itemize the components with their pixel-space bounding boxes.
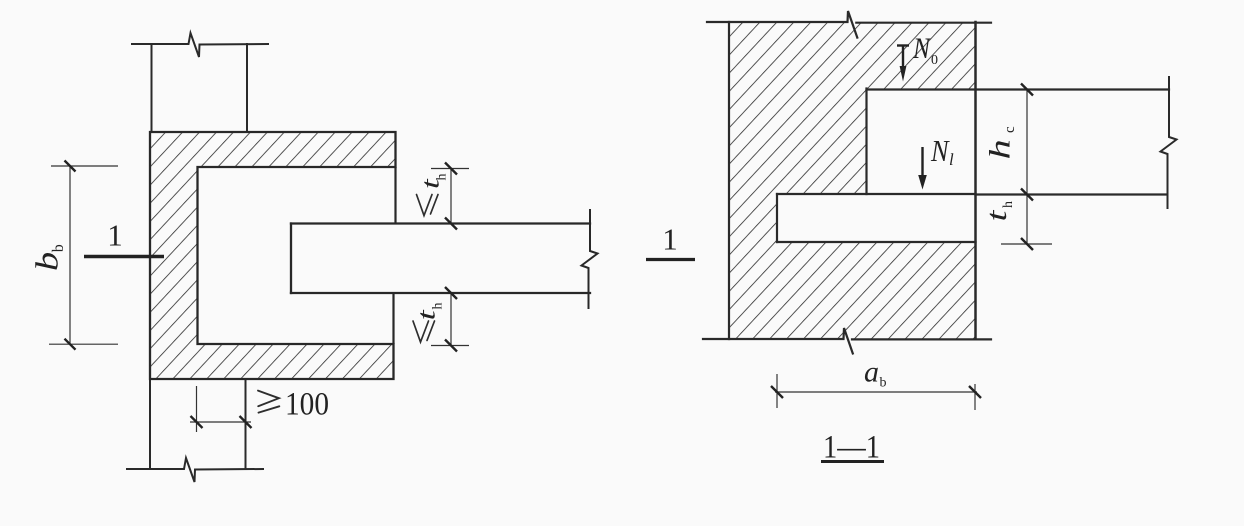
svg-text:0: 0: [931, 53, 938, 68]
svg-text:b: b: [880, 376, 887, 391]
svg-text:t: t: [981, 209, 1013, 222]
svg-text:h: h: [431, 303, 446, 310]
svg-text:h: h: [435, 174, 450, 181]
svg-text:l: l: [949, 150, 954, 169]
svg-text:1: 1: [662, 222, 678, 257]
svg-text:h: h: [1001, 201, 1016, 208]
svg-text:t: t: [412, 309, 440, 321]
svg-text:a: a: [864, 356, 879, 389]
svg-text:b: b: [50, 244, 67, 252]
svg-text:N: N: [930, 134, 950, 168]
svg-text:h: h: [983, 139, 1017, 159]
svg-text:1: 1: [107, 218, 123, 253]
svg-text:N: N: [912, 32, 931, 65]
svg-text:b: b: [29, 252, 64, 271]
svg-text:c: c: [1002, 126, 1018, 133]
svg-text:100: 100: [285, 387, 329, 423]
